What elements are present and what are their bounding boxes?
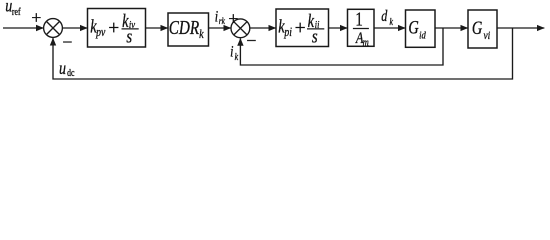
svg-text:ref: ref — [12, 6, 21, 17]
wire: Gvi block to output — [497, 27, 544, 29]
wire: outer voltage feedback udc from node after Gvi down and left — [53, 28, 513, 79]
block: current PI controller kpi+kii/s — [276, 9, 329, 47]
svg-text:id: id — [419, 30, 426, 42]
svg-text:dc: dc — [67, 67, 74, 78]
wire: current PI block to 1/Am block — [329, 27, 348, 29]
svg-text:−: − — [62, 32, 72, 52]
svg-text:1: 1 — [355, 8, 363, 30]
wire: CDRk block to summing junction S2 — [209, 27, 231, 29]
svg-text:rk: rk — [219, 15, 225, 26]
fraction bar kiv/s in voltage PI block — [122, 28, 139, 30]
fraction bar kii/s in current PI block — [307, 28, 324, 30]
wire: voltage PI block to CDRk block — [146, 27, 168, 29]
svg-text:k: k — [199, 27, 204, 41]
svg-text:m: m — [363, 36, 369, 48]
wire: input u_ref into summing junction S1 — [3, 27, 43, 29]
svg-text:+: + — [108, 18, 119, 39]
svg-text:s: s — [126, 26, 132, 47]
wire: Gid block to Gvi block — [435, 27, 468, 29]
block: plant Gvi — [468, 10, 497, 48]
svg-text:s: s — [312, 26, 318, 47]
svg-text:pv: pv — [95, 26, 105, 39]
block: CDRk droop — [168, 13, 209, 46]
wire: inner current feedback ik from node after Gid down and left — [240, 28, 443, 65]
block: voltage PI controller kpv+kiv/s — [88, 9, 146, 48]
summing junction S2 (circle with cross) — [231, 19, 250, 38]
svg-text:+: + — [295, 18, 306, 39]
svg-text:vi: vi — [483, 29, 490, 42]
svg-text:G: G — [472, 17, 482, 38]
svg-text:CDR: CDR — [169, 16, 200, 38]
svg-text:−: − — [246, 31, 256, 51]
block: modulator gain 1/Am — [348, 9, 375, 46]
svg-text:+: + — [228, 8, 238, 28]
block: plant Gid — [406, 10, 436, 47]
svg-text:u: u — [59, 60, 66, 79]
svg-text:k: k — [390, 16, 394, 27]
wire: 1/Am block to Gid block (signal dk) — [374, 27, 405, 29]
svg-text:d: d — [381, 9, 387, 26]
svg-text:pi: pi — [284, 26, 292, 39]
wire: S1 to voltage PI block — [62, 27, 87, 29]
svg-text:k: k — [235, 51, 239, 62]
svg-text:G: G — [408, 17, 418, 38]
fraction bar 1/Am — [353, 28, 369, 30]
svg-text:+: + — [31, 7, 41, 27]
summing junction S1 (circle with cross) — [44, 19, 63, 38]
wire: S2 to current PI block — [250, 27, 276, 29]
svg-text:i: i — [215, 9, 218, 26]
svg-text:i: i — [230, 44, 233, 61]
